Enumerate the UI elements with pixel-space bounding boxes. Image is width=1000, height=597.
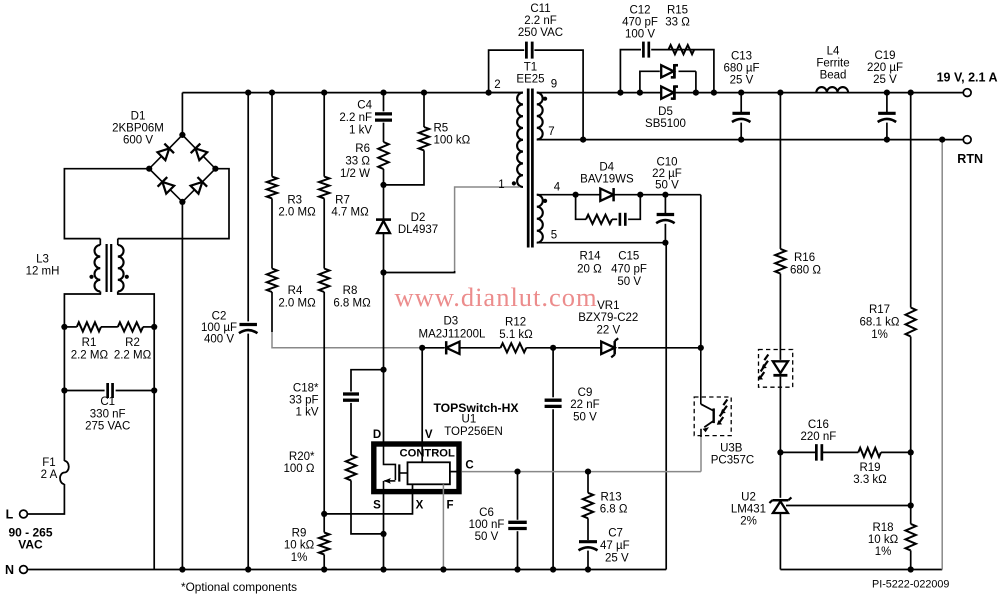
- svg-text:2.2 nF: 2.2 nF: [339, 112, 372, 124]
- label R7 value: [331, 194, 369, 218]
- wire C2 column bottom: [247, 334, 249, 570]
- svg-text:5.1 kΩ: 5.1 kΩ: [499, 329, 533, 341]
- resistor R8: [319, 269, 329, 293]
- svg-text:1%: 1%: [291, 552, 308, 564]
- label R17 value: [860, 304, 900, 341]
- svg-text:Bead: Bead: [820, 69, 847, 81]
- svg-text:EE25: EE25: [516, 74, 544, 86]
- wire left col to L3: [64, 292, 100, 327]
- svg-text:470 pF: 470 pF: [611, 264, 647, 276]
- svg-text:*Optional components: *Optional components: [181, 580, 297, 594]
- wire D3 to R12: [460, 347, 501, 349]
- junction bridge left: [146, 166, 152, 172]
- capacitor C13: [732, 113, 751, 122]
- op-amp U1 box: [374, 444, 459, 492]
- junction C13 top: [738, 90, 744, 96]
- inductor L4 ferrite bead: [816, 87, 848, 93]
- junction C9 bottom rail: [550, 566, 556, 572]
- svg-text:RTN: RTN: [957, 152, 983, 166]
- label C18 value: [289, 383, 319, 419]
- svg-text:220 nF: 220 nF: [800, 431, 836, 443]
- label D2 value: [398, 212, 438, 236]
- junction C1 right: [151, 387, 157, 393]
- svg-text:10 kΩ: 10 kΩ: [868, 534, 899, 546]
- junction drain-snubber: [380, 367, 386, 373]
- wire fb to ref node: [910, 452, 912, 505]
- bridge diode top-right: [191, 144, 208, 161]
- label R19 value: [853, 462, 887, 486]
- label R20 value: [284, 451, 316, 475]
- svg-text:R1: R1: [82, 337, 97, 349]
- svg-text:9: 9: [551, 79, 557, 91]
- label D1 2KBP06M 600 V: [112, 110, 164, 146]
- wire R20 to S: [351, 480, 384, 534]
- label TOPSwitch-HX U1 TOP256EN: [433, 401, 519, 438]
- svg-text:100 nF: 100 nF: [469, 519, 505, 531]
- svg-text:LM431: LM431: [731, 503, 766, 515]
- wire snubber top: [351, 370, 384, 392]
- wire L3 right bottom: [117, 291, 119, 294]
- resistor R15: [669, 45, 695, 54]
- transformer T1 primary winding: [517, 93, 523, 187]
- wire V pin: [421, 348, 423, 463]
- junction drain-pin1: [380, 269, 386, 275]
- bridge diode bottom-right: [190, 177, 207, 194]
- svg-text:R9: R9: [292, 527, 307, 539]
- svg-text:DL4937: DL4937: [398, 224, 438, 236]
- svg-text:R4: R4: [288, 285, 303, 297]
- wire bridge right loop: [118, 169, 229, 239]
- wire right col C1/R2 to N rail: [153, 327, 155, 570]
- bridge diode bottom-left: [158, 177, 175, 194]
- svg-text:33 Ω: 33 Ω: [665, 16, 690, 28]
- capacitor C15: [620, 213, 625, 226]
- wire C9 column: [552, 348, 554, 570]
- wire pin1 (gray) from winding: [455, 187, 520, 271]
- svg-text:3.3 kΩ: 3.3 kΩ: [853, 474, 887, 486]
- svg-text:220 µF: 220 µF: [867, 62, 903, 74]
- svg-text:12 mH: 12 mH: [26, 266, 60, 278]
- label C10 value: [652, 157, 682, 192]
- svg-text:1/2 W: 1/2 W: [340, 168, 370, 180]
- svg-text:C6: C6: [479, 507, 494, 519]
- junction D5 left: [637, 90, 643, 96]
- svg-text:4.7 MΩ: 4.7 MΩ: [331, 207, 369, 219]
- junction C9 top: [550, 345, 556, 351]
- wire C pin gray: [462, 471, 701, 473]
- watermark www.dianlut.com: [395, 282, 598, 312]
- junction X row: [321, 511, 327, 517]
- svg-text:U1: U1: [462, 414, 477, 426]
- wire L3 left bottom: [99, 291, 101, 294]
- resistor R2: [118, 322, 143, 331]
- wire C12/R15 branch: [620, 50, 714, 93]
- svg-text:R17: R17: [869, 304, 890, 316]
- wire R3 col top: [271, 93, 273, 177]
- wire R12 to VR1: [526, 347, 601, 349]
- label pin 9: [551, 79, 557, 91]
- capacitor C1: [108, 383, 113, 398]
- svg-text:50 V: 50 V: [617, 276, 641, 288]
- wire R9 bottom: [323, 555, 325, 570]
- label U3B PC357C: [711, 442, 754, 466]
- L3 phase dot right: [125, 275, 129, 279]
- label T1 EE25: [516, 62, 544, 86]
- wire C16 row: [780, 451, 910, 453]
- svg-text:2%: 2%: [740, 516, 757, 528]
- U1 mosfet gate bar: [398, 464, 400, 481]
- LED U3A: [773, 361, 788, 375]
- wire bridge left loop: [64, 169, 149, 239]
- wire RTN sense (gray): [941, 140, 943, 570]
- capacitor C18: [343, 394, 359, 400]
- junction rail R7: [321, 90, 327, 96]
- svg-text:R7: R7: [335, 194, 350, 206]
- wire rail to pin2: [489, 92, 523, 94]
- label pin D: [373, 429, 381, 441]
- junction R17 top: [908, 90, 914, 96]
- inductor L3 right winding: [118, 245, 124, 291]
- svg-text:100 Ω: 100 Ω: [284, 463, 315, 475]
- wire pin5 col to bottom rail: [665, 243, 667, 570]
- junction D4 anode branch: [573, 192, 579, 198]
- label pin 2: [494, 79, 500, 91]
- transformer T1 secondary winding: [537, 93, 543, 140]
- wire LED to C16 node: [779, 377, 781, 453]
- svg-text:100 V: 100 V: [625, 28, 655, 40]
- wire C10 top: [664, 195, 666, 214]
- svg-text:SB5100: SB5100: [645, 118, 686, 130]
- T1 core: [528, 89, 532, 248]
- resistor R13: [583, 493, 593, 519]
- svg-text:C10: C10: [656, 157, 677, 169]
- diode D4: [600, 188, 613, 201]
- svg-text:50 V: 50 V: [655, 180, 679, 192]
- resistor R7: [319, 177, 329, 199]
- wire R5 top: [423, 93, 425, 127]
- svg-text:Ferrite: Ferrite: [816, 57, 849, 69]
- terminal N: [20, 566, 28, 574]
- svg-text:N: N: [5, 563, 14, 577]
- transformer T1 bias winding: [537, 195, 543, 243]
- wire C13 column: [740, 93, 742, 140]
- junction bridge right: [212, 166, 218, 172]
- svg-text:22 µF: 22 µF: [652, 168, 682, 180]
- wire C10 bottom: [664, 224, 666, 243]
- svg-text:100 kΩ: 100 kΩ: [434, 135, 471, 147]
- label R9 value: [284, 527, 315, 564]
- svg-text:D1: D1: [131, 110, 146, 122]
- label C4 value: [339, 100, 372, 137]
- svg-text:2.2 MΩ: 2.2 MΩ: [71, 349, 109, 361]
- label CONTROL: [400, 447, 455, 459]
- wire V-node to R12: [422, 347, 444, 349]
- svg-text:R8: R8: [343, 285, 358, 297]
- label R3 value: [278, 194, 316, 218]
- wire X pin: [324, 484, 412, 514]
- wire C1 row: [64, 390, 154, 392]
- svg-text:C7: C7: [608, 528, 623, 540]
- svg-text:33 Ω: 33 Ω: [345, 155, 370, 167]
- wire R7-R8: [323, 198, 325, 268]
- wire pin5 row: [537, 242, 666, 244]
- wire C7 bottom: [587, 551, 589, 570]
- svg-text:4: 4: [554, 182, 561, 194]
- wire R17 to fb node: [910, 337, 912, 453]
- wire R16 top: [779, 93, 781, 249]
- wire R1 row: [64, 326, 154, 328]
- resistor R19: [858, 448, 881, 457]
- junction C10 top: [662, 192, 668, 198]
- label D4 value: [580, 161, 634, 185]
- label L3 12 mH: [26, 254, 60, 278]
- svg-text:R15: R15: [667, 4, 688, 16]
- resistor R17: [906, 308, 916, 337]
- wire C pin: [450, 471, 462, 473]
- svg-text:33 pF: 33 pF: [289, 395, 318, 407]
- svg-text:D5: D5: [658, 106, 673, 118]
- resistor R18: [906, 524, 916, 551]
- junction ref node: [908, 502, 914, 508]
- label F1 2 A: [41, 457, 58, 481]
- svg-text:19 V, 2.1 A: 19 V, 2.1 A: [937, 70, 998, 84]
- label L4 Ferrite Bead: [816, 45, 849, 81]
- svg-text:20 Ω: 20 Ω: [577, 264, 602, 276]
- U3B photon arrows: [717, 400, 728, 425]
- svg-text:S: S: [373, 500, 381, 512]
- svg-text:6.8 Ω: 6.8 Ω: [600, 504, 628, 516]
- wire ref to R18: [910, 506, 912, 524]
- wire secondary bottom rail: [780, 569, 942, 571]
- svg-text:2KBP06M: 2KBP06M: [112, 123, 164, 135]
- wire L3 left top: [99, 239, 101, 245]
- junction C19 top: [884, 90, 890, 96]
- label D3 value: [419, 316, 487, 341]
- wire N rail (bottom primary rail): [28, 569, 667, 571]
- svg-text:VR1: VR1: [597, 300, 619, 312]
- svg-text:1%: 1%: [875, 546, 892, 558]
- wire R13-C7: [587, 518, 589, 540]
- wire C1 row to R1 row: [63, 327, 65, 391]
- wire pin7 rail: [537, 139, 963, 141]
- wire AC input L to fuse: [28, 484, 65, 514]
- wire fuse to C1 row: [63, 391, 65, 462]
- svg-text:275 VAC: 275 VAC: [85, 421, 130, 433]
- wire pin4 row: [537, 195, 701, 348]
- svg-text:BZX79-C22: BZX79-C22: [578, 312, 638, 324]
- resistor R9: [319, 533, 329, 555]
- svg-text:2.2 MΩ: 2.2 MΩ: [114, 349, 152, 361]
- T1 sec phase dot: [543, 97, 547, 101]
- svg-text:C12: C12: [629, 4, 650, 16]
- junction R15 right: [711, 90, 717, 96]
- svg-text:C11: C11: [530, 3, 550, 15]
- wire C11 branch: [489, 50, 583, 140]
- wire D2 to drain node: [383, 233, 385, 443]
- capacitor C11: [526, 42, 532, 59]
- label C1 value: [85, 396, 130, 433]
- resistor R1: [77, 322, 101, 331]
- resistor R14: [586, 215, 612, 224]
- diode D5 lower: [661, 85, 678, 100]
- svg-text:R16: R16: [794, 252, 815, 264]
- label pin S: [373, 500, 381, 512]
- svg-text:7: 7: [548, 126, 554, 138]
- svg-text:680 µF: 680 µF: [723, 62, 759, 74]
- label U2 LM431 2%: [731, 491, 766, 527]
- svg-text:R5: R5: [434, 123, 449, 135]
- svg-text:F1: F1: [42, 457, 55, 469]
- T1 bias phase dot: [543, 199, 547, 203]
- wire S pin: [383, 493, 385, 570]
- L3 phase dot left: [89, 275, 93, 279]
- wire C4-R6: [383, 123, 385, 142]
- wire R17 top: [910, 93, 912, 308]
- junction F bottom rail: [440, 566, 446, 572]
- label RTN: [957, 152, 983, 166]
- label R4 value: [278, 285, 316, 309]
- wire opto collector: [700, 348, 702, 404]
- label D5 value: [645, 106, 686, 130]
- svg-text:1 kV: 1 kV: [349, 124, 372, 136]
- wire C6 column: [517, 472, 519, 570]
- svg-text:V: V: [425, 429, 433, 441]
- label pin V: [425, 429, 433, 441]
- label pin X: [416, 500, 424, 512]
- label C19 value: [867, 50, 903, 86]
- inductor L3 left winding: [95, 245, 101, 291]
- svg-text:L: L: [6, 507, 14, 521]
- wire LM431 to bottom: [779, 513, 781, 570]
- junction bridge top: [179, 132, 185, 138]
- zener VR1: [601, 338, 618, 357]
- svg-text:50 V: 50 V: [573, 411, 597, 423]
- U3B dashed box: [694, 397, 731, 436]
- wire R18 bottom: [910, 550, 912, 569]
- wire R9 top: [323, 514, 325, 533]
- junction C10 bottom: [662, 240, 668, 246]
- U3A photon arrows: [758, 355, 769, 380]
- diode D2: [376, 220, 391, 234]
- svg-text:5: 5: [551, 230, 557, 242]
- svg-text:CONTROL: CONTROL: [400, 447, 455, 459]
- svg-text:R20*: R20*: [289, 451, 315, 463]
- junction L4 left: [777, 90, 783, 96]
- wire LED col to LM431: [779, 452, 781, 497]
- capacitor C19: [878, 113, 897, 122]
- svg-text:600 V: 600 V: [123, 135, 153, 147]
- label C11 value: [518, 3, 563, 39]
- wire C2 column top: [247, 93, 249, 322]
- wire R7 col top: [323, 93, 325, 177]
- terminal RTN: [963, 136, 971, 144]
- svg-text:68.1 kΩ: 68.1 kΩ: [860, 316, 900, 328]
- svg-text:1 kV: 1 kV: [295, 407, 318, 419]
- label C13 value: [723, 50, 759, 86]
- junction R18 bottom: [908, 566, 914, 572]
- svg-text:2.0 MΩ: 2.0 MΩ: [278, 207, 316, 219]
- label pin 7: [548, 126, 554, 138]
- capacitor C6: [508, 522, 527, 528]
- svg-text:D3: D3: [443, 316, 458, 328]
- svg-text:R19: R19: [859, 462, 880, 474]
- svg-text:10 kΩ: 10 kΩ: [284, 540, 315, 552]
- capacitor C10: [656, 215, 675, 224]
- svg-text:22 V: 22 V: [596, 324, 620, 336]
- svg-text:47 µF: 47 µF: [600, 540, 630, 552]
- svg-text:2: 2: [494, 79, 500, 91]
- label C12 value: [622, 4, 658, 40]
- U1 source inside: [383, 481, 385, 493]
- junction fb node: [908, 449, 914, 455]
- junction C6 top: [514, 469, 520, 475]
- svg-text:TOP256EN: TOP256EN: [444, 426, 503, 438]
- svg-text:PI-5222-022009: PI-5222-022009: [872, 579, 949, 591]
- svg-text:C18*: C18*: [293, 383, 319, 395]
- label N: [5, 563, 14, 577]
- U1 control block: [408, 462, 450, 484]
- capacitor C12: [643, 42, 648, 58]
- svg-text:BAV19WS: BAV19WS: [580, 173, 634, 185]
- U3B phototransistor: [701, 404, 714, 437]
- capacitor C16: [816, 444, 822, 461]
- svg-text:R18: R18: [872, 522, 893, 534]
- wire secondary top rail: [537, 92, 963, 94]
- svg-text:R13: R13: [601, 492, 622, 504]
- U1 mosfet source arrow: [384, 478, 396, 484]
- svg-text:MA2J11200L: MA2J11200L: [419, 328, 487, 340]
- label pin 1: [498, 179, 504, 191]
- resistor R20: [346, 455, 356, 480]
- T1 primary phase dot: [512, 181, 516, 185]
- label R18 value: [868, 522, 899, 558]
- label C9 value: [570, 387, 599, 423]
- svg-text:250 VAC: 250 VAC: [518, 27, 563, 39]
- wire opto emitter (gray): [700, 437, 702, 472]
- junction S-snubber: [380, 531, 386, 537]
- label R1 R2 values: [71, 337, 152, 361]
- label C7 value: [600, 528, 630, 565]
- svg-text:C9: C9: [578, 387, 593, 399]
- junction C13 bottom: [738, 137, 744, 143]
- junction clamp node: [380, 182, 386, 188]
- svg-text:22 nF: 22 nF: [570, 399, 599, 411]
- label R16 value: [790, 252, 821, 277]
- label R14 value: [577, 250, 602, 275]
- label R13 value: [600, 492, 628, 516]
- junction S bottom rail: [380, 566, 386, 572]
- fuse F1: [60, 461, 69, 484]
- capacitor C4: [375, 114, 392, 120]
- svg-text:D2: D2: [411, 212, 426, 224]
- svg-text:U3B: U3B: [720, 442, 743, 454]
- diode D3: [446, 341, 459, 354]
- junction bridge bottom: [179, 199, 185, 205]
- svg-text:L3: L3: [36, 254, 49, 266]
- junction C2 bottom rail: [245, 566, 251, 572]
- svg-text:C13: C13: [731, 50, 752, 62]
- svg-text:C4: C4: [357, 100, 372, 112]
- terminal +19V: [963, 89, 971, 97]
- U1 mosfet drain path: [384, 445, 396, 480]
- wire VR1 to opto col: [618, 347, 701, 349]
- wire bridge top to rail: [181, 93, 183, 135]
- svg-text:1: 1: [498, 179, 504, 191]
- svg-text:L4: L4: [827, 45, 840, 57]
- wire pin1 to drain node: [384, 271, 455, 273]
- svg-text:470 pF: 470 pF: [622, 16, 658, 28]
- junction rail R5: [421, 90, 427, 96]
